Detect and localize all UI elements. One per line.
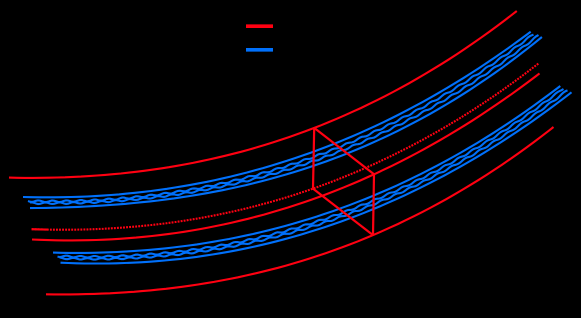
red dotted curve - bottom boundary of upper flux sheet (32, 63, 539, 230)
blue field line B5 of lower sheet (53, 86, 560, 253)
red curve R1 - top boundary of upper flux sheet (9, 11, 517, 178)
red curve R2 - top boundary of lower flux sheet (32, 73, 540, 240)
dotted curve solid lead-in segment (32, 228, 48, 231)
box edge A-C: upper diagonal of volume element (314, 128, 374, 174)
blue field line B4 of upper sheet (30, 37, 542, 208)
blue field line B3 of upper sheet (30, 35, 539, 204)
red curve R4 - bottom boundary of lower flux sheet (46, 127, 554, 294)
legend red line sample (flux surface boundary) (246, 24, 273, 28)
blue field line B2 of upper sheet (28, 35, 534, 203)
legend blue line sample (magnetic field lines) (246, 48, 273, 52)
blue field line B1 of upper sheet (23, 32, 531, 198)
box edge B-D: lower diagonal of volume element (313, 189, 373, 236)
box edge C-D: right vertical of volume element (373, 174, 374, 235)
blue field line B7 of lower sheet (60, 90, 568, 259)
blue field line B6 of lower sheet (58, 89, 564, 258)
blue field line B8 of lower sheet (61, 92, 572, 263)
box edge A-B: left vertical of volume element (313, 128, 314, 189)
